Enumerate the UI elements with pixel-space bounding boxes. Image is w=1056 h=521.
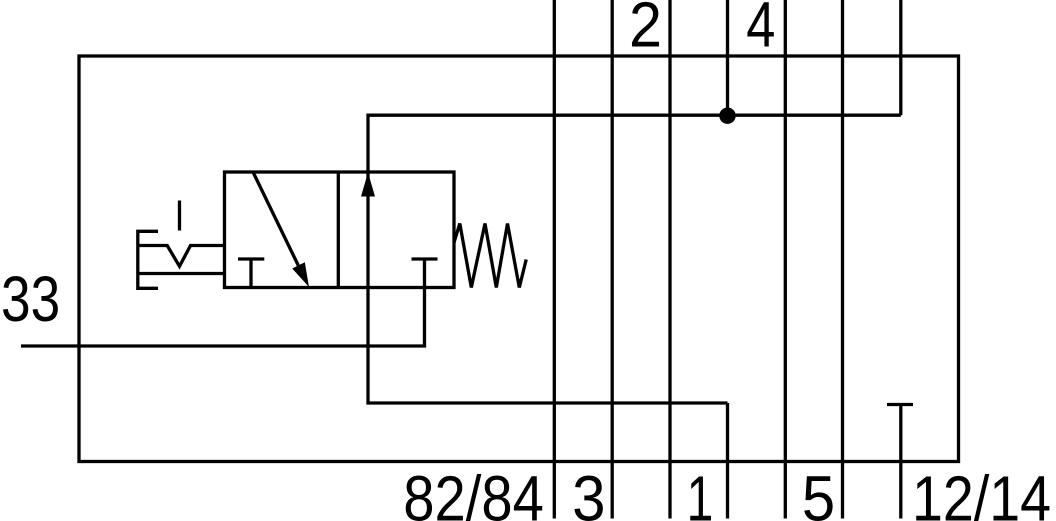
svg-text:3: 3: [572, 463, 605, 521]
blocked port T (left cell): [238, 259, 264, 288]
wire port line 5: [784, 0, 787, 519]
svg-text:5: 5: [802, 463, 835, 521]
valve flow path arrow (right cell, open): [366, 172, 369, 288]
junction dot: [719, 108, 735, 124]
plunger actuator stem: [178, 201, 181, 231]
svg-text:33: 33: [1, 263, 60, 335]
plunger actuator bracket: [138, 231, 158, 288]
wire port line 82/84: [553, 0, 556, 519]
wire port line 1 lower segment: [726, 403, 729, 519]
svg-text:2: 2: [629, 0, 662, 61]
arrowhead of right-cell flow path: [361, 173, 375, 197]
wire port line 12/14 upper segment: [899, 0, 902, 115]
blocked port T at line 12/14: [887, 403, 913, 406]
valve section divider: [337, 172, 340, 288]
wire port line (between 5 and 12/14): [841, 0, 844, 519]
wire port line 3: [611, 0, 614, 519]
wire from valve bottom to port 1 lower: [368, 288, 728, 404]
plunger actuator notched rod: [138, 246, 225, 267]
svg-text:1: 1: [687, 463, 714, 521]
wire port line (between 3 and 1): [668, 0, 671, 519]
svg-text:4: 4: [746, 0, 775, 61]
return spring: [454, 224, 526, 288]
wire pilot line from valve output to port 12/14: [368, 115, 901, 172]
plunger actuator lower rod: [138, 272, 225, 275]
svg-text:82/84: 82/84: [403, 463, 544, 521]
blocked port T (right cell): [412, 257, 438, 260]
valve flow diagonal arrow (left cell): [253, 172, 300, 269]
wire port 33: [21, 259, 425, 346]
svg-text:12/14: 12/14: [912, 463, 1051, 521]
enclosure outline: [79, 56, 959, 462]
wire port line 1 upper segment: [726, 0, 729, 116]
valve body U1: [225, 172, 455, 288]
arrowhead of left-cell diagonal: [292, 262, 309, 287]
